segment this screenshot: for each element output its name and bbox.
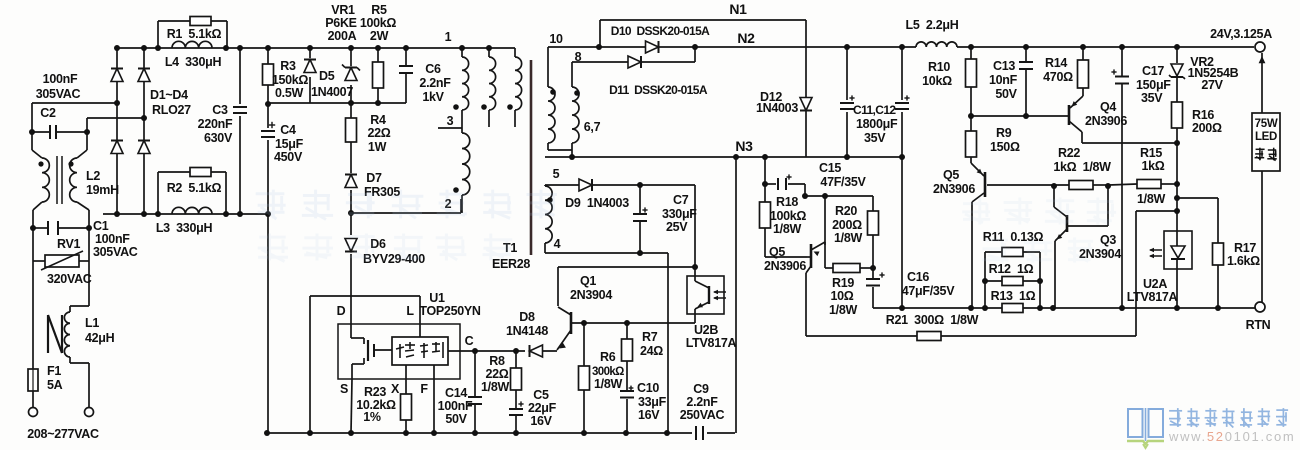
optocoupler U2A LED	[1171, 246, 1185, 258]
transistor Q5 (current limit)	[810, 244, 813, 268]
junction node (1026,116)	[1023, 113, 1029, 119]
svg-text:4: 4	[554, 237, 561, 251]
svg-text:200Ω: 200Ω	[832, 218, 862, 232]
wire: aux winding stubs	[488, 110, 490, 127]
capacitor C13	[1019, 61, 1033, 63]
junction node (406,48)	[403, 45, 409, 51]
svg-text:www.520101.com: www.520101.com	[1168, 429, 1295, 444]
wire: C16 bottom lead	[872, 287, 874, 308]
svg-text:1kΩ 1/8W: 1kΩ 1/8W	[1053, 160, 1111, 174]
svg-text:100kΩ: 100kΩ	[770, 209, 807, 223]
svg-text:R18: R18	[776, 195, 798, 209]
junction node (516,433)	[513, 430, 519, 436]
wire: R20 top row y=196	[805, 195, 873, 197]
junction node (475,351)	[472, 348, 478, 354]
junction node (351,433)	[348, 430, 354, 436]
svg-text:C1: C1	[93, 219, 109, 233]
svg-text:24Ω: 24Ω	[640, 344, 663, 358]
junction node (240,48)	[237, 45, 243, 51]
wire: VR1 column x=351	[350, 48, 352, 66]
wire: Y-cap link x=736	[735, 157, 737, 433]
wire: bridge left leg x=117	[116, 48, 118, 68]
svg-text:LTV817A: LTV817A	[686, 336, 737, 350]
junction node (310,433)	[307, 430, 313, 436]
junction node (640,185)	[637, 182, 643, 188]
bridge diode D2 (x=144 upper)	[138, 69, 150, 82]
wire: AC right leg vertical x=89	[88, 261, 90, 302]
svg-text:R10: R10	[928, 60, 950, 74]
svg-text:C16: C16	[907, 270, 929, 284]
junction node (902,157)	[899, 154, 905, 160]
svg-text:2W: 2W	[370, 29, 389, 43]
faint central watermark row 2	[258, 234, 513, 262]
zener VR2	[1171, 64, 1183, 76]
junction node (158,48)	[155, 45, 161, 51]
junction node (1177,143)	[1174, 140, 1180, 146]
wire: R21 right riser x=1136	[1135, 211, 1137, 336]
svg-text:1kV: 1kV	[422, 90, 444, 104]
resistor R11	[1002, 248, 1023, 257]
resistor R1	[190, 17, 211, 26]
svg-text:L: L	[406, 304, 414, 318]
svg-text:0.5W: 0.5W	[275, 86, 303, 100]
capacitor C7	[633, 213, 647, 215]
svg-text:22μF: 22μF	[528, 401, 557, 415]
junction node (847,47)	[844, 44, 850, 50]
wire: R1 loop	[157, 21, 159, 48]
optocoupler U2B light arrows	[714, 291, 726, 293]
resistor R6	[579, 366, 590, 390]
svg-text:D9 1N4003: D9 1N4003	[565, 196, 629, 210]
svg-text:35V: 35V	[864, 131, 886, 145]
bridge diode D4 (x=144 lower)	[138, 141, 150, 154]
svg-text:27V: 27V	[1201, 78, 1223, 92]
junction node (971,116)	[968, 113, 974, 119]
junction node (144,118)	[141, 115, 147, 121]
diode D10	[646, 41, 659, 53]
junction node (268,48)	[265, 45, 271, 51]
wire: R12 row	[985, 280, 1002, 282]
junction node (584,323)	[581, 320, 587, 326]
inductor L4	[172, 41, 212, 48]
svg-text:C6: C6	[425, 62, 441, 76]
svg-text:D7: D7	[366, 171, 382, 185]
wire: Q4 base row y=116	[971, 115, 1069, 117]
svg-text:Q4: Q4	[1100, 100, 1116, 114]
common-mode choke L2	[42, 158, 49, 202]
junction node (516,351)	[513, 348, 519, 354]
wire: U1 S pin	[351, 364, 353, 379]
transformer T1 core	[530, 60, 533, 255]
svg-text:1N4003: 1N4003	[756, 101, 798, 115]
svg-text:5: 5	[553, 167, 560, 181]
capacitor C14	[468, 396, 482, 398]
svg-text:Q5: Q5	[769, 245, 785, 259]
junction node (572,157)	[569, 154, 575, 160]
wire: Q1 base row y=323	[571, 322, 695, 324]
junction node (805,196)	[802, 193, 808, 199]
junction node (475,433)	[472, 430, 478, 436]
svg-text:R4: R4	[370, 113, 386, 127]
svg-text:RTN: RTN	[1246, 318, 1271, 332]
junction node (971,47)	[968, 44, 974, 50]
junction node (240,214)	[237, 211, 243, 217]
wire: C17 column x=1122	[1121, 47, 1123, 76]
wire: N3 rail y=157	[545, 156, 903, 158]
svg-text:15μF: 15μF	[275, 137, 304, 151]
svg-text:R8: R8	[489, 354, 505, 368]
svg-text:150Ω: 150Ω	[990, 140, 1020, 154]
junction node (667,433)	[664, 430, 670, 436]
svg-text:R7: R7	[642, 330, 658, 344]
junction node (117,103)	[114, 100, 120, 106]
resistor R15	[1137, 180, 1161, 189]
svg-text:1/8W: 1/8W	[594, 377, 622, 391]
resistor R20	[868, 211, 879, 235]
svg-text:100nF: 100nF	[438, 399, 473, 413]
transistor Q3	[1066, 215, 1069, 232]
svg-text:R16: R16	[1192, 108, 1214, 122]
svg-text:C13: C13	[993, 59, 1015, 73]
wire: pin8/D11 row	[571, 62, 573, 87]
svg-text:C9: C9	[693, 382, 709, 396]
svg-text:150μF: 150μF	[1136, 78, 1171, 92]
junction node (378,48)	[375, 45, 381, 51]
resistor R9	[966, 131, 977, 157]
svg-text:22Ω: 22Ω	[485, 367, 508, 381]
junction node (406,433)	[403, 430, 409, 436]
capacitor C10	[620, 390, 634, 392]
junction node (158,214)	[155, 211, 161, 217]
svg-text:R23: R23	[364, 385, 386, 399]
svg-text:P6KE: P6KE	[325, 16, 356, 30]
junction node (695,47)	[692, 44, 698, 50]
svg-text:C3: C3	[212, 103, 228, 117]
wire: secondary ground rail y=308	[873, 307, 1002, 309]
junction node (462,48)	[459, 45, 465, 51]
svg-text:47F/35V: 47F/35V	[820, 175, 866, 189]
svg-text:D: D	[337, 304, 346, 318]
svg-text:10kΩ: 10kΩ	[922, 74, 952, 88]
wire: LED load column x=1262	[1261, 53, 1263, 113]
resistor R5	[373, 62, 384, 88]
wire: L2 top/bottom jogs	[31, 132, 33, 150]
svg-text:C15: C15	[819, 161, 841, 175]
resistor R4	[346, 118, 357, 142]
svg-text:1/8W: 1/8W	[1137, 192, 1165, 206]
svg-text:C4: C4	[280, 123, 296, 137]
svg-text:U1: U1	[429, 291, 445, 305]
wire: R14 column x=1083	[1082, 47, 1084, 60]
junction node (378,103)	[375, 100, 381, 106]
junction node (1040,281)	[1037, 278, 1043, 284]
svg-text:100nF: 100nF	[43, 72, 78, 86]
wire: C3 column x=240	[239, 48, 241, 104]
capacitor C4	[261, 130, 275, 132]
svg-text:35V: 35V	[1141, 91, 1163, 105]
svg-text:R17: R17	[1234, 241, 1256, 255]
svg-text:D1~D4: D1~D4	[150, 88, 188, 102]
svg-text:75W: 75W	[1255, 118, 1278, 130]
diode D6	[345, 239, 357, 252]
svg-text:630V: 630V	[204, 131, 233, 145]
junction node (434,433)	[431, 430, 437, 436]
terminal RTN	[1255, 302, 1265, 312]
svg-text:EER28: EER28	[492, 257, 530, 271]
wire: C13 column x=1026	[1025, 47, 1027, 62]
svg-text:D5: D5	[319, 69, 335, 83]
wire: pin3 stub	[438, 127, 462, 129]
svg-text:10Ω: 10Ω	[830, 289, 853, 303]
svg-text:47μF/35V: 47μF/35V	[902, 284, 955, 298]
transformer T1 primary winding 1-3	[462, 57, 469, 110]
junction node (1177,47)	[1174, 44, 1180, 50]
svg-text:F: F	[420, 382, 428, 396]
svg-text:16V: 16V	[530, 414, 552, 428]
wire: top DC rail y=48	[117, 47, 515, 49]
svg-text:R12 1Ω: R12 1Ω	[989, 262, 1034, 276]
wire: primary ground rail y=433	[267, 432, 692, 434]
wire: AC left leg vertical x=33	[32, 261, 34, 369]
transformer T1 primary winding 3-2	[461, 110, 463, 133]
svg-text:10nF: 10nF	[989, 73, 1018, 87]
capacitor C6	[399, 65, 413, 67]
svg-text:100nF: 100nF	[95, 232, 130, 246]
wire: L1 jogs	[69, 357, 71, 363]
junction node (267,433)	[264, 430, 270, 436]
resistor R8	[511, 368, 522, 390]
wire: R11 row	[985, 251, 1002, 253]
wire: D5 column x=310	[309, 48, 311, 58]
junction node (825,196)	[822, 193, 828, 199]
svg-text:33μF: 33μF	[638, 395, 667, 409]
svg-text:208~277VAC: 208~277VAC	[27, 427, 99, 441]
junction node (351,48)	[348, 45, 354, 51]
inductor L3	[172, 207, 212, 214]
svg-text:8: 8	[575, 50, 582, 64]
transformer T1 aux winding a	[489, 57, 496, 110]
resistor R19	[833, 264, 860, 273]
junction node (1122,47)	[1119, 44, 1125, 50]
LED load arrow up	[1259, 56, 1266, 63]
svg-text:C: C	[465, 334, 474, 348]
svg-text:R3: R3	[280, 59, 296, 73]
svg-text:25V: 25V	[666, 220, 688, 234]
junction node (971,308)	[968, 305, 974, 311]
svg-text:RLO27: RLO27	[152, 103, 191, 117]
svg-text:1800μF: 1800μF	[856, 117, 898, 131]
resistor R23	[401, 394, 412, 420]
wire: C2 row and AC feed to bridge	[32, 102, 116, 104]
svg-text:U2B: U2B	[694, 323, 718, 337]
wire: secondary 6,7 bottom	[547, 143, 549, 150]
wire: Q4 collector path y=143	[1081, 132, 1083, 143]
capacitor C3	[233, 106, 247, 108]
svg-text:L1: L1	[85, 316, 99, 330]
wire: R11-R13 left bus x=985	[984, 252, 986, 308]
junction node (117,214)	[114, 211, 120, 217]
wire: Q5b collector to R21	[805, 273, 807, 336]
wire: pin2 wire	[351, 212, 461, 214]
svg-text:50V: 50V	[445, 412, 467, 426]
capacitor C16	[866, 278, 880, 280]
junction node (89,228)	[86, 225, 92, 231]
svg-text:1%: 1%	[363, 410, 381, 424]
resistor R7	[622, 339, 633, 361]
svg-text:1N4148: 1N4148	[506, 324, 548, 338]
wire: R18 column	[764, 184, 766, 202]
junction node (985,281)	[982, 278, 988, 284]
svg-text:C17: C17	[1142, 64, 1164, 78]
junction node (765,184)	[762, 181, 768, 187]
svg-text:2.2nF: 2.2nF	[419, 76, 451, 90]
wire: transformer primary top connections	[461, 48, 463, 57]
svg-text:19mH: 19mH	[86, 183, 119, 197]
svg-text:N3: N3	[735, 138, 753, 154]
junction node (1177,308)	[1174, 305, 1180, 311]
wire: R8/C5 column x=516	[515, 351, 517, 368]
wire: C12 column x=902	[901, 47, 903, 100]
wire: C14 column x=475	[474, 351, 476, 397]
svg-text:1/8W: 1/8W	[834, 231, 862, 245]
svg-text:10: 10	[549, 32, 563, 46]
junction node (144,48)	[141, 45, 147, 51]
svg-text:450V: 450V	[274, 150, 303, 164]
inductor L1 core N mark	[47, 315, 49, 353]
inductor L5	[916, 42, 957, 47]
diode D12	[800, 98, 812, 111]
wire: N1 loop	[599, 20, 601, 47]
optocoupler U2A box	[1164, 231, 1192, 269]
junction node (117,48)	[114, 45, 120, 51]
svg-text:N1: N1	[729, 1, 747, 17]
junction node (847,157)	[844, 154, 850, 160]
svg-text:L4 330μH: L4 330μH	[165, 55, 222, 69]
svg-text:R20: R20	[835, 204, 857, 218]
resistor R21	[917, 332, 941, 341]
wire: C pin row y=351	[448, 350, 525, 352]
optocoupler U2B phototransistor	[694, 276, 696, 281]
wire: R4/D7/D6 column x=351	[350, 103, 352, 118]
svg-text:D11 DSSK20-015A: D11 DSSK20-015A	[609, 83, 708, 97]
svg-text:1: 1	[445, 30, 452, 44]
svg-text:1W: 1W	[368, 140, 387, 154]
svg-text:305VAC: 305VAC	[93, 245, 138, 259]
terminal AC input left	[29, 408, 38, 417]
junction node (1218,308)	[1215, 305, 1221, 311]
faint central watermark right cluster	[962, 198, 1116, 263]
svg-text:1/8W: 1/8W	[773, 222, 801, 236]
junction node (33,228)	[30, 225, 36, 231]
bridge diode D3 (x=117 lower)	[111, 141, 123, 154]
svg-text:1kΩ: 1kΩ	[1141, 159, 1164, 173]
junction node (599,47)	[596, 44, 602, 50]
junction node (351,213)	[348, 210, 354, 216]
resistor R17	[1213, 243, 1224, 265]
capacitor C12	[895, 102, 909, 104]
resistor R13	[1002, 304, 1023, 313]
svg-text:R15: R15	[1140, 146, 1162, 160]
svg-text:250VAC: 250VAC	[680, 408, 725, 422]
bridge diode D1 (x=117 upper)	[111, 69, 123, 82]
resistor R10	[966, 59, 977, 87]
svg-text:L3 330μH: L3 330μH	[156, 221, 213, 235]
junction node (1040,308)	[1037, 305, 1043, 311]
junction node (695,267)	[692, 264, 698, 270]
wire: R3/C4 column x=268	[267, 48, 269, 64]
junction node (584,433)	[581, 430, 587, 436]
svg-text:R22: R22	[1058, 146, 1080, 160]
capacitor C5	[509, 408, 523, 410]
capacitor C15	[777, 178, 779, 190]
wire: lower secondary leads	[544, 243, 546, 253]
wire: C15 row y=184	[764, 157, 766, 184]
wire: Q5a column x=971-972	[970, 47, 972, 59]
wire: N2 output rail y=47	[548, 46, 916, 48]
capacitor C9	[695, 426, 697, 440]
junction node (902,308)	[899, 305, 905, 311]
faint central watermark row 1	[256, 190, 557, 220]
junction node (1083,47)	[1080, 44, 1086, 50]
wire: Q5a base row y=185	[987, 184, 1069, 186]
svg-text:D8: D8	[519, 310, 535, 324]
svg-text:5A: 5A	[47, 378, 63, 392]
svg-text:R19: R19	[832, 276, 854, 290]
watermark logo book icon	[1128, 409, 1143, 437]
svg-text:24V,3.125A: 24V,3.125A	[1210, 27, 1272, 41]
wire: Q3 emitter column x=1055	[1054, 241, 1056, 308]
svg-text:L5 2.2μH: L5 2.2μH	[906, 18, 959, 32]
junction node (736,157)	[733, 154, 739, 160]
junction node (226,48)	[223, 45, 229, 51]
wire: pin10 lead	[547, 47, 549, 87]
transformer T1 aux winding b	[515, 57, 522, 110]
svg-text:1N4007: 1N4007	[311, 85, 353, 99]
svg-text:Q5: Q5	[943, 168, 959, 182]
svg-text:2.2nF: 2.2nF	[686, 395, 718, 409]
svg-text:VR1: VR1	[331, 3, 355, 17]
svg-text:16V: 16V	[638, 408, 660, 422]
wire: C7 column x=640	[639, 185, 641, 214]
svg-text:320VAC: 320VAC	[47, 272, 92, 286]
capacitor C11	[840, 102, 854, 104]
svg-text:100kΩ: 100kΩ	[360, 16, 397, 30]
inductor L1	[64, 312, 70, 357]
watermark hanzi 家电维修资料网	[1177, 408, 1179, 427]
varistor RV1	[33, 260, 45, 262]
wire: R20 bottom lead	[872, 235, 874, 279]
transformer T1 secondary winding 10-6,7	[548, 87, 555, 143]
svg-text:6,7: 6,7	[584, 120, 601, 134]
svg-text:1/8W: 1/8W	[829, 303, 857, 317]
svg-text:C7: C7	[673, 193, 689, 207]
svg-text:2N3906: 2N3906	[1085, 114, 1127, 128]
optocoupler U2A light arrows	[1150, 249, 1162, 251]
junction node (626,433)	[623, 430, 629, 436]
junction node (226,214)	[223, 211, 229, 217]
junction node (489,48)	[486, 45, 492, 51]
resistor R3	[263, 64, 274, 85]
svg-text:2N3906: 2N3906	[933, 182, 975, 196]
wire: R2 loop	[157, 172, 159, 214]
junction node (32,132)	[29, 129, 35, 135]
capacitor C17	[1115, 76, 1129, 78]
wire: pin4 row y=253	[545, 252, 668, 254]
svg-text:Q1: Q1	[580, 274, 596, 288]
svg-text:330μF: 330μF	[662, 207, 697, 221]
junction node (1026,47)	[1023, 44, 1029, 50]
junction node (1122,308)	[1119, 305, 1125, 311]
